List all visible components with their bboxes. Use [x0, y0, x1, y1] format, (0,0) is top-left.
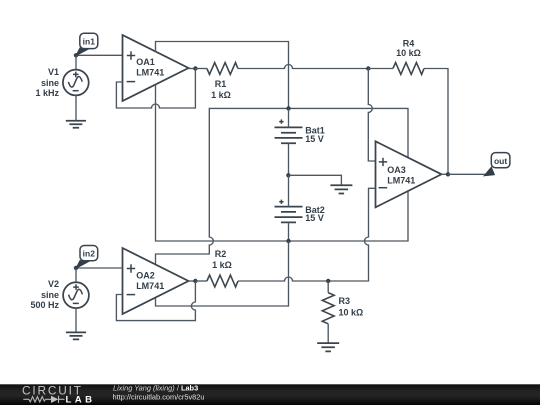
svg-text:OA2: OA2 [136, 270, 155, 280]
wire OA2 out to R2 [195, 280, 207, 282]
resistor R3 [322, 293, 334, 324]
svg-text:LM741: LM741 [387, 176, 415, 186]
ground V1 [66, 121, 86, 128]
svg-text:Lixing Yang (lixing) / Lab3: Lixing Yang (lixing) / Lab3 [113, 384, 198, 393]
svg-text:R3: R3 [339, 296, 351, 306]
wire R1 to junction (hop over Bat column) [238, 65, 368, 69]
node OA2 output [193, 279, 197, 283]
node in1 [74, 53, 78, 57]
wire V- rail (OA1 V- pin along bottom to OA3 V- pin) [156, 84, 409, 241]
op-amp OA2 [123, 248, 189, 314]
svg-text:10 kΩ: 10 kΩ [396, 48, 421, 58]
label R3 [339, 296, 364, 318]
wire R3 bottom to ground [327, 324, 329, 343]
wire OA1 V+ pin to Bat1 top [156, 42, 289, 109]
label V2 [30, 279, 59, 310]
svg-text:in2: in2 [83, 249, 96, 259]
ground mid [330, 185, 352, 193]
resistor R2 [207, 275, 238, 287]
wire in1 to OA1 + input [76, 54, 123, 56]
svg-text:1 kΩ: 1 kΩ [211, 90, 231, 100]
wire mid junction to ground [288, 175, 341, 185]
svg-text:LM741: LM741 [136, 281, 164, 291]
resistor R4 [393, 63, 424, 75]
svg-text:OA1: OA1 [136, 57, 155, 67]
wire in2 to OA2 + input [76, 267, 123, 269]
wire R4 to OA3 output column [424, 69, 448, 175]
label V1 [35, 67, 59, 98]
label Bat2 [305, 205, 325, 223]
node R3 tap junction [326, 279, 330, 283]
node in2 [74, 266, 78, 270]
flag out [484, 153, 510, 176]
wire OA3 output stub [442, 173, 449, 175]
label R4 [396, 39, 421, 59]
wire junction to R4 [368, 68, 393, 70]
node R1/R4/OA3+ junction [366, 66, 370, 70]
flag in1 [76, 33, 98, 55]
svg-text:R2: R2 [215, 249, 227, 259]
op-amp OA1 [123, 35, 189, 101]
voltage source V2 [63, 282, 89, 308]
wire Bat1 top [288, 108, 290, 127]
svg-text:1 kHz: 1 kHz [35, 88, 59, 98]
wire V2 bottom [75, 308, 77, 332]
wire R3 top [327, 281, 329, 293]
svg-text:in1: in1 [83, 36, 96, 46]
wire V1 bottom [75, 95, 77, 120]
node OA1 output [193, 66, 197, 70]
wire OA2 V- pin [156, 241, 289, 306]
svg-text:R4: R4 [403, 39, 415, 49]
voltage source V1 [63, 70, 89, 96]
svg-text:OA3: OA3 [387, 165, 406, 175]
node mid battery junction [286, 173, 290, 177]
wire OA1 output stub [189, 68, 196, 70]
wire V2 top [75, 268, 77, 282]
wire V+ rail (OA3 V+ pin left then down to OA2 V+ pin) [156, 108, 409, 265]
svg-text:500 Hz: 500 Hz [30, 300, 59, 310]
node OA3 output [446, 172, 450, 176]
svg-text:LM741: LM741 [136, 68, 164, 78]
wire R2 to OA3 - input (hops over Bat column and V- rail) [238, 188, 376, 281]
wire Bat1 bottom to mid junction [288, 143, 290, 175]
flag in2 [76, 246, 98, 269]
svg-text:out: out [494, 156, 507, 166]
logo mini circuit symbol [23, 396, 64, 403]
battery Bat1 [275, 119, 303, 143]
wire junction down to OA3 + input (hop over V+ rail) [368, 69, 375, 162]
svg-text:15 V: 15 V [305, 134, 324, 144]
wire Bat2 top [288, 175, 290, 206]
wire V1 top [75, 55, 77, 69]
resistor R1 [207, 63, 238, 75]
svg-text:1 kΩ: 1 kΩ [212, 260, 232, 270]
ground V2 [66, 332, 86, 339]
label Bat1 [305, 125, 325, 144]
wire OA1 out to R1 [195, 68, 207, 70]
svg-text:sine: sine [41, 290, 59, 300]
ground R3 [317, 343, 339, 351]
node V- rail junction [286, 239, 290, 243]
svg-text:15 V: 15 V [305, 213, 324, 223]
svg-text:LAB: LAB [66, 394, 96, 405]
wire OA1 feedback (output to - input, hop over V- column) [116, 69, 195, 109]
wire OA2 feedback (output to - input, hop over V- wire) [116, 281, 195, 321]
svg-text:V2: V2 [48, 279, 59, 289]
wire OA2 output stub [189, 280, 196, 282]
wire OA3 output to out flag [448, 173, 486, 175]
svg-text:sine: sine [41, 78, 59, 88]
label R1 [211, 79, 231, 100]
wire Bat2 bottom [288, 222, 290, 241]
svg-text:http://circuitlab.com/cr5v82u: http://circuitlab.com/cr5v82u [113, 392, 205, 401]
footer bar [0, 384, 540, 405]
op-amp OA3 [376, 141, 442, 207]
node Bat1 top junction [286, 106, 290, 110]
svg-text:10 kΩ: 10 kΩ [339, 307, 364, 317]
label R2 [212, 249, 232, 270]
battery Bat2 [275, 200, 303, 223]
svg-text:V1: V1 [48, 67, 59, 77]
svg-text:R1: R1 [215, 79, 227, 89]
